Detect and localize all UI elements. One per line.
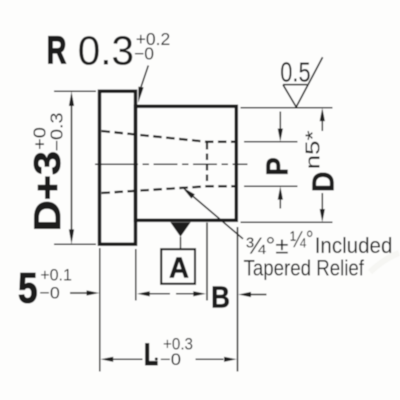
svg-text:n5*: n5*: [302, 130, 325, 169]
svg-text:−0: −0: [134, 44, 154, 64]
svg-text:B: B: [211, 281, 230, 315]
svg-text:R: R: [47, 29, 67, 72]
svg-text:−0: −0: [39, 284, 59, 303]
svg-text:5: 5: [18, 265, 38, 312]
svg-text:0.5: 0.5: [280, 57, 310, 88]
svg-text:L: L: [144, 337, 158, 372]
svg-text:Included: Included: [315, 233, 393, 258]
svg-text:−0.3: −0.3: [47, 113, 67, 152]
svg-text:¼°: ¼°: [290, 226, 314, 252]
svg-text:P: P: [260, 157, 295, 176]
svg-text:−0: −0: [160, 350, 181, 369]
svg-text:0.3: 0.3: [78, 28, 134, 74]
svg-text:A: A: [169, 253, 189, 285]
svg-text:Tapered Relief: Tapered Relief: [244, 255, 365, 280]
svg-text:D: D: [306, 172, 341, 193]
svg-text:+0.1: +0.1: [40, 265, 72, 284]
svg-text:D+3: D+3: [27, 151, 68, 232]
